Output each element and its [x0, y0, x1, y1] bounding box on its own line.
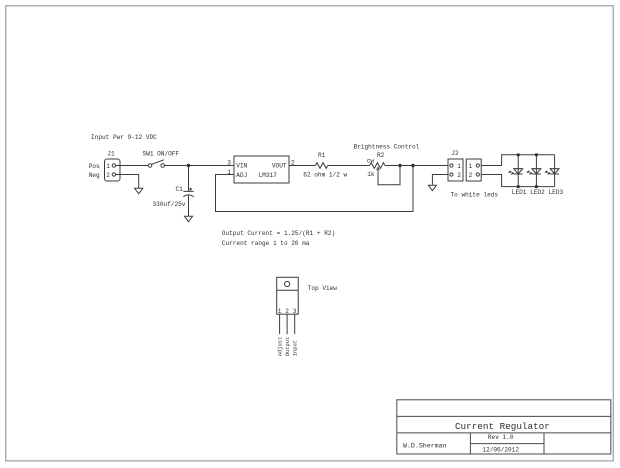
svg-text:62 ohm 1/2 w: 62 ohm 1/2 w [303, 172, 347, 179]
svg-text:LM317: LM317 [259, 172, 278, 179]
svg-text:VOUT: VOUT [272, 163, 287, 170]
svg-text:Current Regulator: Current Regulator [455, 421, 550, 432]
svg-text:2: 2 [285, 308, 289, 315]
svg-text:LED3: LED3 [549, 189, 564, 196]
svg-text:330uf/25v: 330uf/25v [153, 201, 186, 208]
svg-text:1: 1 [457, 163, 461, 170]
svg-text:Rev 1.0: Rev 1.0 [488, 434, 514, 441]
svg-text:2: 2 [469, 172, 473, 179]
svg-text:Top View: Top View [308, 285, 338, 292]
svg-text:J2: J2 [451, 150, 459, 157]
svg-text:3: 3 [227, 160, 231, 167]
svg-text:Output: Output [285, 337, 291, 356]
svg-text:LED2: LED2 [530, 189, 545, 196]
svg-text:1: 1 [469, 163, 473, 170]
svg-text:2: 2 [457, 172, 461, 179]
svg-text:ADJ: ADJ [236, 172, 247, 179]
svg-text:12/06/2012: 12/06/2012 [482, 447, 519, 454]
svg-text:1: 1 [278, 308, 282, 315]
svg-text:To white leds: To white leds [451, 192, 499, 199]
svg-text:LED1: LED1 [512, 189, 527, 196]
svg-text:C1: C1 [176, 186, 184, 193]
svg-text:Brightness Control: Brightness Control [354, 143, 420, 150]
svg-text:3: 3 [293, 308, 297, 315]
svg-text:VIN: VIN [236, 163, 247, 170]
svg-text:R1: R1 [318, 152, 326, 159]
svg-text:SW1 ON/OFF: SW1 ON/OFF [143, 151, 180, 158]
svg-text:Adjust: Adjust [278, 337, 284, 356]
svg-text:Input: Input [293, 340, 299, 356]
svg-text:Pos: Pos [89, 163, 100, 170]
svg-text:Current range 1 to 20 ma: Current range 1 to 20 ma [222, 240, 310, 247]
svg-text:Input Pwr 9-12 VDC: Input Pwr 9-12 VDC [91, 134, 157, 141]
svg-text:R2: R2 [377, 152, 385, 159]
svg-text:Output Current = 1.25/(R1 + R2: Output Current = 1.25/(R1 + R2) [222, 230, 335, 237]
svg-text:2: 2 [106, 172, 110, 179]
svg-text:Neg: Neg [89, 172, 100, 179]
svg-text:W.D.Sherman: W.D.Sherman [403, 443, 447, 450]
svg-text:J1: J1 [107, 151, 115, 158]
svg-text:1k: 1k [367, 171, 375, 178]
svg-text:1: 1 [106, 163, 110, 170]
